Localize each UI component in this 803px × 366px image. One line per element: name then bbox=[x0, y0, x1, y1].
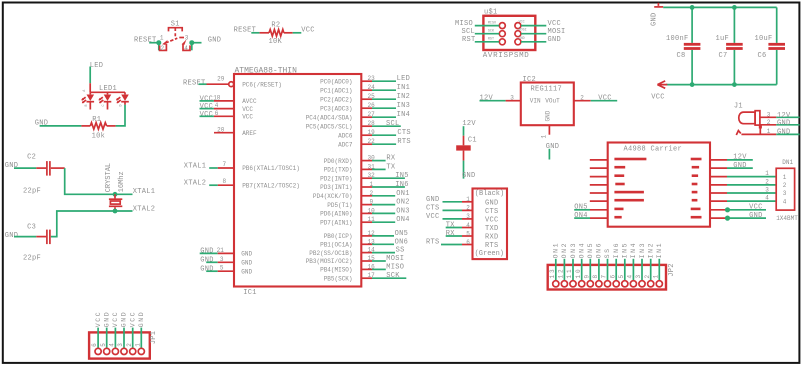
J1 switch lever bbox=[736, 131, 741, 135]
svg-text:GND: GND bbox=[650, 12, 658, 26]
C1 lead top bbox=[463, 136, 465, 146]
switch S1 lever dash bbox=[179, 37, 184, 39]
J1 contact mark bbox=[759, 125, 762, 128]
svg-text:VCC: VCC bbox=[519, 21, 525, 25]
svg-text:PB0(ICP): PB0(ICP) bbox=[324, 233, 353, 240]
svg-text:15: 15 bbox=[368, 255, 376, 262]
pin GND 21 bbox=[200, 247, 253, 258]
pin AVCC 18 bbox=[200, 94, 258, 105]
pin RXD 5 / net RX bbox=[446, 230, 499, 241]
svg-text:CTS: CTS bbox=[397, 129, 411, 137]
JP2 pin 6 / net IN6 bbox=[609, 242, 620, 287]
A4988 left pin bar row 2 bbox=[614, 166, 625, 169]
J1 pin 3 lead bbox=[760, 116, 776, 118]
svg-text:RXD: RXD bbox=[485, 234, 499, 242]
svg-text:IN1: IN1 bbox=[397, 84, 411, 92]
svg-text:10K: 10K bbox=[269, 38, 283, 46]
pin PB6(XTAL1/TOSC1) 7 bbox=[184, 161, 300, 172]
C2 lead right bbox=[51, 167, 65, 169]
svg-text:VCC: VCC bbox=[129, 311, 136, 328]
pin PC5(ADC5/SCL) 28 / net SCL bbox=[306, 120, 401, 130]
svg-text:CTS: CTS bbox=[426, 205, 440, 213]
R1 lead left bbox=[81, 125, 90, 127]
pin PD2(INT0) 32 / net IN5 bbox=[320, 172, 409, 182]
U$1 pad MOSI bbox=[515, 31, 521, 37]
JP1 pin 6 / net VCC bbox=[91, 311, 102, 355]
svg-text:11: 11 bbox=[566, 267, 573, 278]
svg-text:ON5: ON5 bbox=[395, 230, 409, 238]
svg-text:(Black): (Black) bbox=[475, 190, 504, 198]
svg-text:IN4: IN4 bbox=[397, 111, 411, 119]
svg-text:DN1: DN1 bbox=[782, 159, 793, 166]
A4988 left pin bar row 5 bbox=[614, 191, 644, 194]
wire MISO bbox=[475, 25, 499, 27]
pin GND 3 bbox=[200, 256, 252, 267]
svg-text:2: 2 bbox=[161, 45, 165, 52]
svg-text:1: 1 bbox=[541, 135, 548, 139]
svg-text:VCC: VCC bbox=[242, 106, 253, 113]
svg-text:RX: RX bbox=[446, 230, 456, 238]
svg-text:4: 4 bbox=[109, 341, 116, 347]
JP2 pin 13 / net ON1 bbox=[549, 242, 560, 287]
wire A4988 to DN1 pin 4 bbox=[727, 200, 776, 202]
pin PB4(MISO) 16 / net MISO bbox=[320, 263, 404, 273]
svg-text:3: 3 bbox=[185, 34, 189, 41]
svg-text:9: 9 bbox=[583, 273, 590, 279]
svg-text:100nF: 100nF bbox=[666, 35, 689, 43]
pin 3 lead bbox=[506, 100, 521, 102]
IC IC1 body bbox=[234, 74, 361, 287]
R2 lead right bbox=[284, 32, 293, 34]
svg-text:RTS: RTS bbox=[397, 138, 411, 146]
svg-text:(Green): (Green) bbox=[475, 250, 504, 258]
pin GND 1 / net GND bbox=[426, 196, 499, 207]
C2 lead left bbox=[36, 167, 46, 169]
svg-text:IN1: IN1 bbox=[656, 242, 663, 259]
svg-text:XTAL2: XTAL2 bbox=[184, 180, 207, 188]
svg-text:ON4: ON4 bbox=[578, 242, 585, 259]
svg-text:1uF: 1uF bbox=[716, 35, 730, 43]
LED1 diode 1 bbox=[81, 92, 94, 109]
svg-text:10: 10 bbox=[368, 207, 376, 214]
switch S1 contact arrow pin3 bbox=[182, 40, 187, 45]
svg-text:2: 2 bbox=[580, 94, 584, 101]
LED1 diode 3 bbox=[116, 92, 129, 105]
pin ADC6 19 / net CTS bbox=[338, 129, 411, 139]
switch S1 contact arrow pin1 bbox=[162, 40, 168, 45]
svg-text:AREF: AREF bbox=[242, 130, 257, 137]
svg-text:B: B bbox=[85, 104, 89, 106]
svg-text:ADC6: ADC6 bbox=[338, 132, 353, 139]
svg-text:A4988 Carrier: A4988 Carrier bbox=[624, 145, 683, 153]
svg-text:C2: C2 bbox=[27, 154, 36, 162]
A4988 right pin lead row 6 bbox=[710, 200, 727, 202]
svg-text:20: 20 bbox=[217, 127, 225, 134]
junction and wire GND bbox=[725, 216, 730, 221]
wire A4988 to DN1 pin 1 bbox=[727, 176, 776, 178]
svg-text:GND: GND bbox=[545, 110, 552, 121]
svg-text:5: 5 bbox=[100, 341, 107, 347]
LED pin lead red bbox=[89, 83, 91, 92]
A4988 right pin bar row 8 bbox=[691, 216, 702, 219]
connector JP2 body bbox=[548, 265, 666, 290]
A4988 right pin bar row 4 bbox=[692, 183, 698, 186]
VCC arrow symbol bbox=[657, 81, 667, 88]
wire MOSI bbox=[521, 33, 546, 35]
svg-text:1: 1 bbox=[765, 170, 769, 177]
ground symbol bbox=[657, 3, 659, 6]
svg-text:13: 13 bbox=[368, 238, 376, 245]
svg-text:13: 13 bbox=[549, 267, 556, 278]
pin PB5(SCK) 17 / net SCK bbox=[324, 272, 407, 282]
svg-text:IN5: IN5 bbox=[395, 172, 409, 180]
svg-text:AVCC: AVCC bbox=[242, 98, 257, 105]
svg-text:VCC: VCC bbox=[242, 114, 253, 121]
svg-text:6: 6 bbox=[215, 110, 219, 117]
svg-text:XTAL1: XTAL1 bbox=[133, 188, 156, 196]
svg-text:R2: R2 bbox=[271, 22, 280, 30]
JP2 pin 5 / net IN5 bbox=[618, 242, 629, 287]
connector JP1 body bbox=[89, 332, 150, 358]
svg-text:LED: LED bbox=[397, 75, 411, 83]
svg-text:23: 23 bbox=[368, 75, 376, 82]
wire GND to R1 bbox=[40, 125, 82, 127]
J1 pin 2 lead bbox=[760, 124, 776, 126]
connector DN1 body bbox=[776, 168, 794, 210]
pin PC1(ADC1) 24 / net IN1 bbox=[320, 84, 410, 94]
JP2 pin 2 / net IN2 bbox=[644, 242, 655, 287]
net GND wire and label bbox=[727, 167, 753, 169]
svg-text:PC6(/RESET): PC6(/RESET) bbox=[242, 81, 282, 88]
wire RST bbox=[475, 41, 499, 43]
svg-text:IN4: IN4 bbox=[630, 242, 637, 259]
A4988 left pin bar row 1 bbox=[614, 158, 646, 161]
svg-text:XTAL1: XTAL1 bbox=[184, 162, 207, 170]
pin PD1(TXD) 31 / net TX bbox=[324, 163, 396, 173]
JP2 pin 4 / net IN4 bbox=[627, 242, 638, 287]
svg-text:VCC: VCC bbox=[200, 111, 214, 119]
svg-text:GND: GND bbox=[241, 260, 252, 267]
wire S1 pin4 drop bbox=[191, 43, 193, 51]
A4988 left pin bar row 3 bbox=[614, 174, 624, 177]
wire GND to frame bbox=[776, 133, 799, 135]
pin PD4(XCK/T0) 2 / net ON1 bbox=[313, 190, 410, 200]
A4988 left pin bar row 4 bbox=[615, 183, 624, 186]
junction crystal bottom bbox=[113, 209, 118, 214]
pin PC6(/RESET) 29 bbox=[183, 76, 282, 89]
svg-text:R1: R1 bbox=[92, 116, 101, 124]
A4988 left pin lead row 4 bbox=[590, 184, 608, 186]
svg-text:GND: GND bbox=[426, 196, 440, 204]
svg-text:2: 2 bbox=[765, 178, 769, 185]
svg-text:6: 6 bbox=[91, 341, 98, 347]
wire S1 pin3 to GND label bbox=[192, 42, 202, 44]
svg-text:C6: C6 bbox=[758, 52, 767, 60]
A4988 right pin lead row 1 bbox=[710, 159, 727, 161]
svg-text:GND: GND bbox=[777, 128, 791, 136]
connector U$1 body bbox=[483, 16, 535, 50]
A4988 right pin bar row 5 bbox=[692, 191, 698, 194]
svg-text:4: 4 bbox=[765, 195, 769, 202]
junction C8 top bbox=[690, 5, 695, 10]
pin PD5(T1) 9 / net ON2 bbox=[327, 199, 409, 209]
svg-text:PC3(ADC3): PC3(ADC3) bbox=[320, 105, 352, 112]
A4988 right pin lead row 5 bbox=[710, 192, 727, 194]
svg-text:18: 18 bbox=[213, 94, 221, 101]
svg-text:GND: GND bbox=[519, 37, 525, 41]
JP2 pin 10 / net ON4 bbox=[575, 242, 586, 287]
U$1 pad SCK bbox=[499, 31, 505, 37]
svg-text:VCC: VCC bbox=[112, 311, 119, 328]
svg-text:IN6: IN6 bbox=[395, 181, 409, 189]
svg-text:MOSI: MOSI bbox=[386, 255, 404, 263]
svg-text:26: 26 bbox=[368, 102, 376, 109]
svg-text:4: 4 bbox=[215, 102, 219, 109]
connector X1 body bbox=[473, 189, 508, 260]
svg-text:1: 1 bbox=[160, 34, 164, 41]
svg-text:GND: GND bbox=[241, 251, 252, 258]
svg-text:IN5: IN5 bbox=[622, 242, 629, 259]
svg-text:REG1117: REG1117 bbox=[531, 85, 563, 93]
svg-text:10k: 10k bbox=[92, 132, 106, 140]
svg-text:12V: 12V bbox=[733, 154, 747, 162]
IC A4988 body bbox=[608, 143, 710, 227]
JP1 pin 5 / net GND bbox=[100, 311, 111, 355]
pin PD7(AIN1) 11 / net ON4 bbox=[320, 216, 410, 226]
svg-text:5: 5 bbox=[618, 273, 625, 279]
JP1 pin 1 / net GND bbox=[134, 311, 145, 355]
svg-text:6: 6 bbox=[609, 273, 616, 279]
J1 bar bbox=[755, 111, 760, 125]
svg-text:GND: GND bbox=[485, 199, 499, 207]
A4988 right pin bar row 2 bbox=[692, 166, 699, 169]
pin PD0(RXD) 30 / net RX bbox=[324, 155, 396, 165]
svg-text:27: 27 bbox=[368, 111, 376, 118]
svg-text:VCC: VCC bbox=[426, 213, 440, 221]
svg-text:C3: C3 bbox=[27, 223, 36, 231]
wire 12V to C1 bbox=[463, 126, 465, 136]
svg-text:9: 9 bbox=[370, 199, 374, 206]
svg-text:1: 1 bbox=[134, 341, 141, 347]
junction C7 top bbox=[732, 5, 737, 10]
svg-text:SCK: SCK bbox=[386, 272, 400, 280]
svg-text:IN3: IN3 bbox=[639, 242, 646, 259]
wire S1 pin2 drop bbox=[158, 43, 160, 51]
svg-text:22pF: 22pF bbox=[23, 187, 41, 195]
junction and wire VCC bbox=[725, 207, 730, 212]
J1 pin 1 lead bbox=[741, 133, 776, 135]
svg-text:8: 8 bbox=[592, 273, 599, 279]
svg-text:ON1: ON1 bbox=[396, 190, 410, 198]
svg-text:1: 1 bbox=[652, 273, 659, 279]
JP1 pin 2 / net VCC bbox=[126, 311, 137, 355]
svg-text:PD0(RXD): PD0(RXD) bbox=[324, 158, 353, 165]
svg-text:VOuT: VOuT bbox=[545, 98, 560, 105]
svg-text:GND: GND bbox=[138, 311, 145, 328]
svg-text:SS: SS bbox=[396, 247, 405, 255]
pin PB3(MOSI/OC2) 15 / net MOSI bbox=[306, 255, 405, 265]
svg-text:D: D bbox=[119, 104, 123, 106]
svg-text:GND: GND bbox=[200, 257, 214, 265]
A4988 right pin lead row 3 bbox=[710, 176, 727, 178]
svg-text:12: 12 bbox=[368, 230, 376, 237]
svg-text:VCC: VCC bbox=[749, 204, 763, 212]
svg-text:VCC: VCC bbox=[301, 27, 315, 35]
svg-text:2: 2 bbox=[644, 273, 651, 279]
pin GND 5 bbox=[200, 265, 252, 276]
svg-text:PD7(AIN1): PD7(AIN1) bbox=[320, 219, 352, 226]
svg-text:CRYSTAL: CRYSTAL bbox=[105, 163, 113, 192]
svg-text:PC4(ADC4/SDA): PC4(ADC4/SDA) bbox=[306, 114, 353, 121]
U$1 pad VCC bbox=[515, 23, 521, 29]
U$1 pad RST bbox=[499, 39, 505, 45]
svg-text:4: 4 bbox=[466, 222, 470, 229]
C3 lead left bbox=[36, 236, 46, 238]
svg-text:ADC7: ADC7 bbox=[338, 141, 353, 148]
A4988 left pin lead row 6 bbox=[590, 200, 608, 202]
svg-text:RST: RST bbox=[462, 36, 476, 44]
A4988 left pin lead row 2 bbox=[590, 167, 608, 169]
svg-text:PD5(T1): PD5(T1) bbox=[327, 202, 352, 209]
wire VCC bbox=[521, 25, 546, 27]
svg-text:IC1: IC1 bbox=[243, 289, 257, 297]
svg-text:2: 2 bbox=[126, 341, 133, 347]
svg-text:MOSI: MOSI bbox=[519, 29, 527, 33]
svg-text:32: 32 bbox=[368, 172, 376, 179]
wire C2 to XTAL1 bbox=[65, 168, 133, 194]
svg-text:VCC: VCC bbox=[95, 311, 102, 328]
svg-text:3: 3 bbox=[510, 94, 514, 101]
svg-text:3: 3 bbox=[117, 341, 124, 347]
svg-text:ON3: ON3 bbox=[396, 207, 410, 215]
R1 lead right bbox=[107, 125, 116, 127]
svg-text:GND: GND bbox=[200, 248, 214, 256]
svg-text:C: C bbox=[102, 104, 106, 106]
svg-text:VCC: VCC bbox=[485, 217, 499, 225]
svg-text:ON4: ON4 bbox=[396, 216, 410, 224]
svg-text:PB5(SCK): PB5(SCK) bbox=[324, 275, 353, 282]
svg-text:GND: GND bbox=[749, 212, 763, 220]
svg-text:C1: C1 bbox=[468, 136, 477, 144]
svg-text:PB6(XTAL1/TOSC1): PB6(XTAL1/TOSC1) bbox=[242, 165, 300, 172]
JP1 pin 4 / net VCC bbox=[109, 311, 120, 355]
pin TXD 4 / net TX bbox=[446, 222, 499, 233]
svg-text:PC1(ADC1): PC1(ADC1) bbox=[320, 87, 352, 94]
A4988 left pin lead row 1 bbox=[590, 159, 608, 161]
junction S1 pin1 bbox=[156, 40, 161, 45]
svg-text:XTAL2: XTAL2 bbox=[133, 205, 156, 213]
pin CTS 2 / net CTS bbox=[426, 205, 499, 216]
svg-text:1: 1 bbox=[783, 174, 787, 181]
svg-text:C8: C8 bbox=[677, 52, 686, 60]
svg-text:ON2: ON2 bbox=[396, 199, 410, 207]
svg-text:JP1: JP1 bbox=[150, 331, 158, 345]
JP2 pin 7 / net SS bbox=[601, 247, 612, 287]
svg-text:MISO: MISO bbox=[455, 20, 473, 28]
capacitor C8 bbox=[666, 7, 700, 84]
svg-text:MOSI: MOSI bbox=[548, 28, 566, 36]
pin PB2(SS/OC1B) 14 / net SS bbox=[309, 247, 404, 257]
switch S1 pin2 frame bbox=[160, 44, 167, 51]
pin PB0(ICP) 12 / net ON5 bbox=[324, 230, 408, 240]
svg-text:PB1(OC1A): PB1(OC1A) bbox=[320, 242, 352, 249]
svg-text:VCC: VCC bbox=[651, 94, 665, 102]
svg-text:22: 22 bbox=[368, 138, 376, 145]
svg-text:24: 24 bbox=[368, 84, 376, 91]
J1 pin 1 riser bbox=[759, 127, 761, 134]
svg-text:GND: GND bbox=[546, 143, 560, 151]
svg-text:LED: LED bbox=[90, 62, 104, 70]
svg-text:AVRISPSMD: AVRISPSMD bbox=[483, 52, 530, 60]
svg-text:PD3(INT1): PD3(INT1) bbox=[320, 184, 352, 191]
svg-text:J1: J1 bbox=[734, 102, 743, 110]
wire GND to frame bbox=[776, 124, 799, 126]
svg-text:ON1: ON1 bbox=[553, 242, 560, 259]
svg-text:IN2: IN2 bbox=[647, 242, 654, 259]
junction crystal top bbox=[113, 192, 118, 197]
wire A4988 to DN1 pin 3 bbox=[727, 192, 776, 194]
svg-text:PB2(SS/OC1B): PB2(SS/OC1B) bbox=[309, 250, 352, 257]
svg-text:RTS: RTS bbox=[485, 242, 499, 250]
R2 lead left bbox=[260, 32, 269, 34]
svg-text:VCC: VCC bbox=[548, 20, 562, 28]
svg-text:5: 5 bbox=[466, 230, 470, 237]
wire GND stub bbox=[548, 149, 550, 160]
svg-text:IN3: IN3 bbox=[397, 102, 411, 110]
resistor R2 zigzag bbox=[269, 30, 284, 37]
switch S1 lever bbox=[166, 38, 178, 43]
svg-text:MISO: MISO bbox=[386, 263, 404, 271]
A4988 left pin lead row 3 bbox=[590, 176, 608, 178]
svg-text:2: 2 bbox=[466, 205, 470, 212]
svg-text:GND: GND bbox=[733, 162, 747, 170]
JP2 pin 3 / net IN3 bbox=[635, 242, 646, 287]
JP2 pin 1 / net IN1 bbox=[652, 242, 663, 287]
svg-text:TXD: TXD bbox=[485, 225, 499, 233]
switch S1 body bracket bbox=[169, 28, 183, 32]
svg-text:SCL: SCL bbox=[462, 28, 476, 36]
JP2 pin 9 / net ON5 bbox=[583, 242, 594, 287]
svg-text:TX: TX bbox=[446, 222, 456, 230]
svg-text:PD6(AIN0): PD6(AIN0) bbox=[320, 211, 352, 218]
wire top GND rail bbox=[663, 6, 777, 8]
junction S1 pin3 bbox=[189, 40, 194, 45]
svg-text:16: 16 bbox=[368, 263, 376, 270]
svg-text:ON6: ON6 bbox=[596, 242, 603, 259]
A4988 left pin bar row 6 bbox=[614, 199, 644, 202]
pin VCC 6 bbox=[200, 110, 254, 121]
pin PB7(XTAL2/TOSC2) 8 bbox=[184, 178, 300, 189]
svg-text:4: 4 bbox=[184, 45, 188, 52]
wire 12V to VIN bbox=[480, 100, 506, 102]
svg-text:7: 7 bbox=[223, 161, 227, 168]
svg-text:IN6: IN6 bbox=[613, 242, 620, 259]
svg-text:PB3(MOSI/OC2): PB3(MOSI/OC2) bbox=[306, 258, 353, 265]
svg-text:SS: SS bbox=[604, 247, 611, 258]
pin 2 lead bbox=[574, 100, 591, 102]
pin PC4(ADC4/SDA) 27 / net IN4 bbox=[306, 111, 410, 121]
wire LED1 cathode down to R1 bbox=[116, 105, 125, 126]
svg-text:14: 14 bbox=[368, 247, 376, 254]
svg-text:28: 28 bbox=[368, 120, 376, 127]
svg-text:10uF: 10uF bbox=[755, 35, 773, 43]
pin PD3(INT1) 1 / net IN6 bbox=[320, 181, 409, 191]
svg-text:IN2: IN2 bbox=[397, 93, 411, 101]
pin PC2(ADC2) 25 / net IN2 bbox=[320, 93, 410, 103]
svg-text:PB4(MISO): PB4(MISO) bbox=[320, 267, 352, 274]
svg-text:PD2(INT0): PD2(INT0) bbox=[320, 175, 352, 182]
A4988 right pin lead row 4 bbox=[710, 184, 727, 186]
